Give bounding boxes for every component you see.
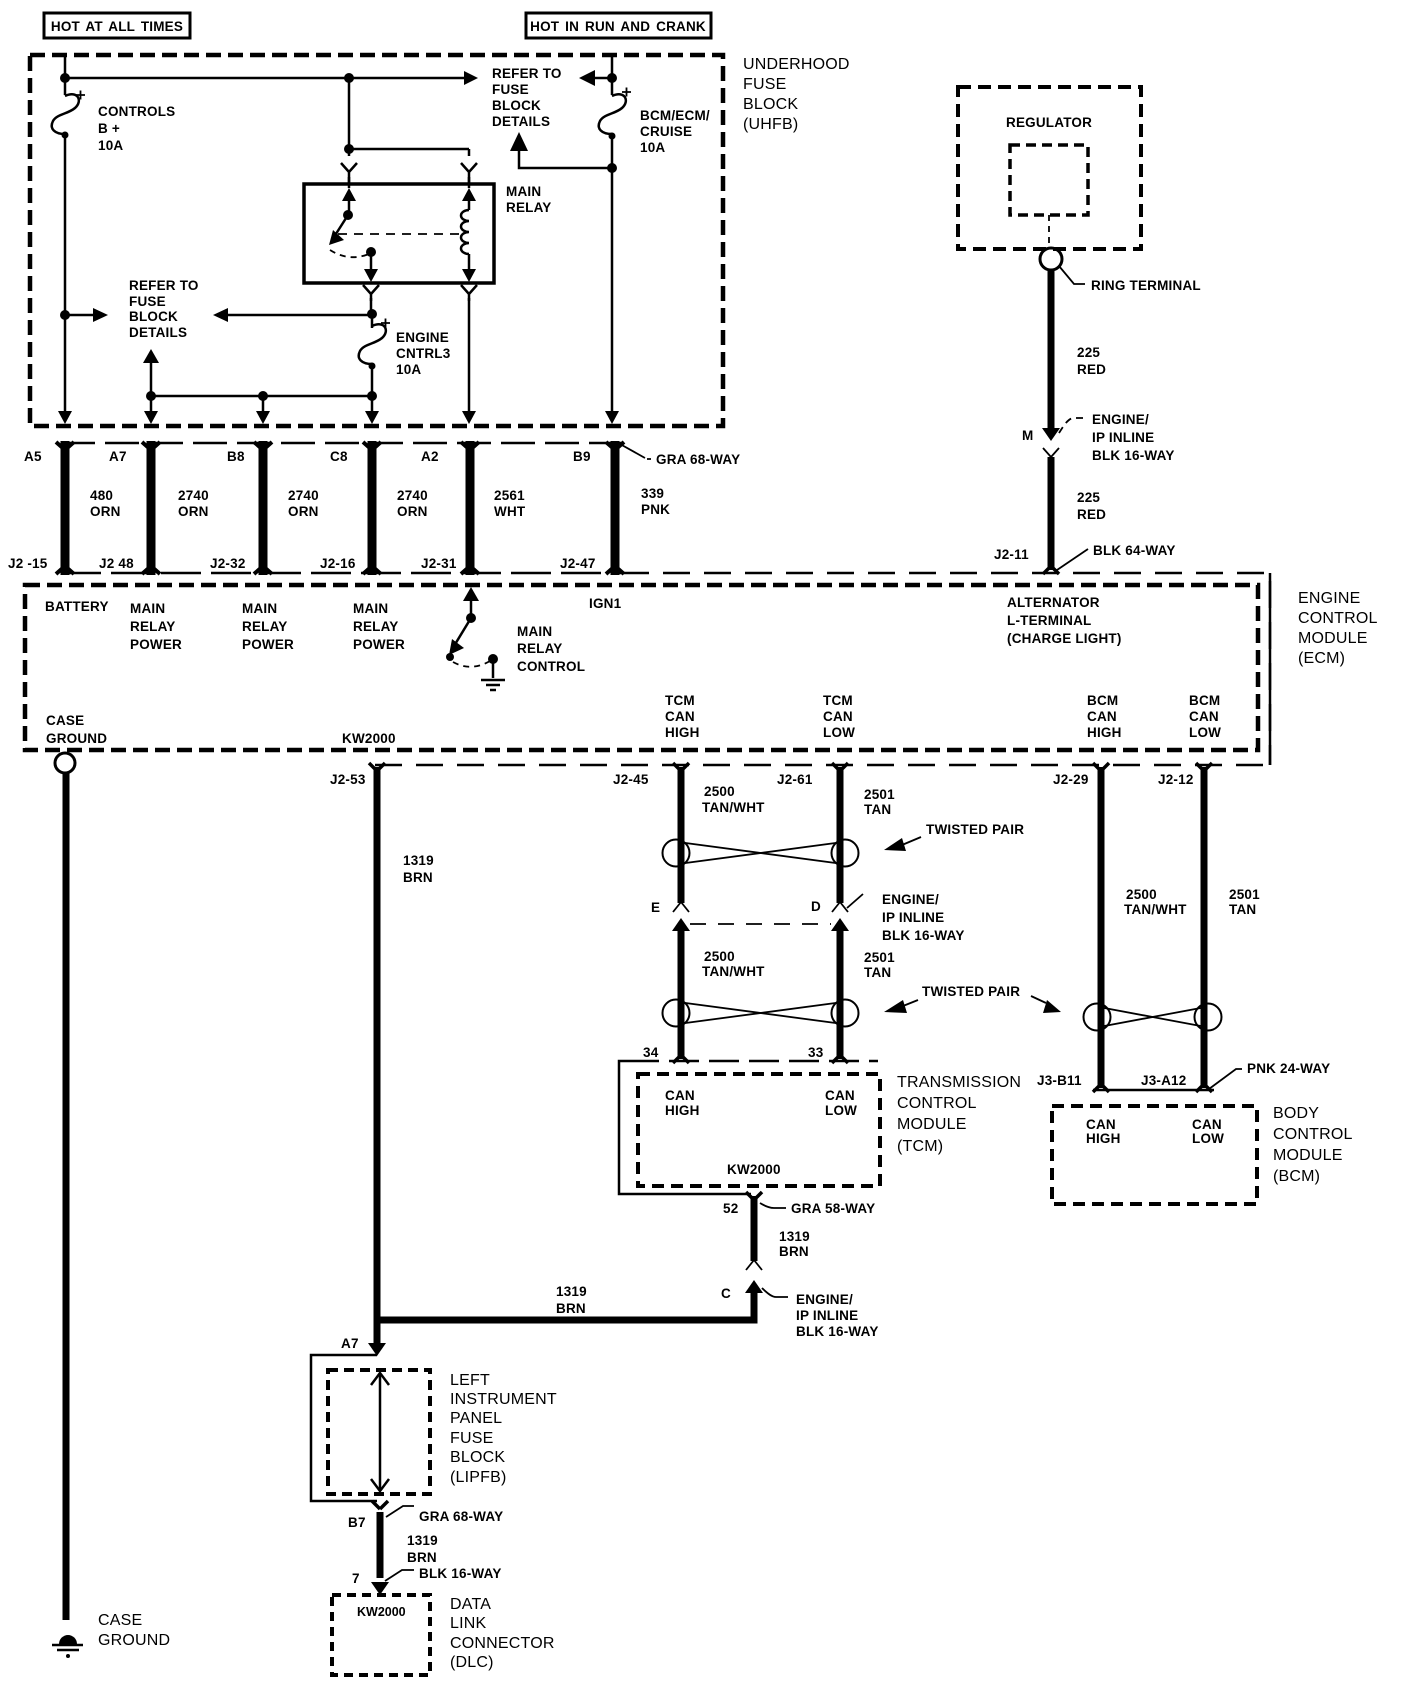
svg-text:2561: 2561 [494, 488, 525, 503]
node junction right top [607, 73, 617, 83]
svg-text:BCM: BCM [1189, 693, 1220, 708]
label GRA 68-WAY leader (B7) [386, 1506, 414, 1517]
node label CASE GROUND [46, 713, 107, 746]
svg-text:2500: 2500 [1126, 887, 1157, 902]
svg-text:BLOCK: BLOCK [492, 98, 541, 113]
svg-text:ENGINE/: ENGINE/ [882, 892, 939, 907]
pin B8 bar [254, 441, 272, 575]
svg-text:CONNECTOR: CONNECTOR [450, 1635, 555, 1652]
svg-text:1319: 1319 [556, 1284, 587, 1299]
svg-text:D: D [811, 899, 821, 914]
wire case ground vertical [63, 773, 70, 1620]
svg-text:C: C [721, 1286, 731, 1301]
BCM connector line [1093, 1089, 1214, 1092]
svg-text:ENGINE/: ENGINE/ [796, 1292, 853, 1307]
svg-text:PNK 24-WAY: PNK 24-WAY [1247, 1061, 1330, 1076]
svg-text:FUSE: FUSE [450, 1430, 493, 1447]
svg-text:1319: 1319 [403, 853, 434, 868]
svg-text:IP INLINE: IP INLINE [796, 1308, 858, 1323]
svg-text:REGULATOR: REGULATOR [1006, 115, 1092, 130]
svg-text:34: 34 [643, 1045, 659, 1060]
connector bracket right vertical [1269, 573, 1272, 765]
svg-text:GRA 58-WAY: GRA 58-WAY [791, 1201, 875, 1216]
svg-text:B7: B7 [348, 1515, 366, 1530]
wire dashed stub regulator to ring terminal [1048, 215, 1050, 247]
svg-text:REFER TO: REFER TO [129, 278, 199, 293]
svg-text:2501: 2501 [1229, 887, 1260, 902]
svg-text:10A: 10A [640, 140, 665, 155]
svg-text:RED: RED [1077, 362, 1106, 377]
label ENGINE/IP INLINE BLK 16-WAY leader [1059, 418, 1083, 433]
label BLK 64-WAY leader [1057, 549, 1088, 570]
svg-text:J2-11: J2-11 [994, 547, 1029, 562]
node junction left at refer arrow [60, 310, 70, 320]
label PNK 24-WAY leader [1209, 1069, 1242, 1089]
svg-text:L-TERMINAL: L-TERMINAL [1007, 613, 1091, 628]
svg-text:HIGH: HIGH [1086, 1131, 1121, 1146]
label RING TERMINAL leader [1059, 266, 1085, 284]
svg-text:IGN1: IGN1 [589, 596, 622, 611]
svg-text:52: 52 [723, 1201, 738, 1216]
svg-text:HOT AT ALL TIMES: HOT AT ALL TIMES [51, 19, 183, 34]
svg-text:J2 -15: J2 -15 [8, 556, 48, 571]
svg-text:(TCM): (TCM) [897, 1138, 943, 1155]
svg-text:E: E [651, 900, 660, 915]
node label BCM CAN LOW [1189, 693, 1221, 740]
pin B9 bar [606, 441, 624, 575]
wire label 2501 TAN lower [864, 950, 895, 980]
svg-text:BCM/ECM/: BCM/ECM/ [640, 108, 710, 123]
node label CAN HIGH (BCM) [1086, 1117, 1121, 1146]
ground symbol chassis (case ground) [52, 1635, 83, 1658]
wire label 1319 BRN (DLC) [407, 1533, 438, 1565]
wire label 2500 TAN/WHT lower [702, 949, 765, 979]
node junction at long left arrow [367, 309, 377, 319]
wire label 2561 WHT [494, 488, 526, 519]
svg-text:B9: B9 [573, 449, 591, 464]
node label CAN LOW (TCM) [825, 1088, 857, 1118]
node label MAIN RELAY POWER 2 [242, 601, 294, 652]
wire 1319 BRN main vertical from J2-53 [374, 767, 381, 1345]
label REFER TO FUSE BLOCK DETAILS (top) [492, 66, 562, 129]
svg-text:ORN: ORN [288, 504, 319, 519]
TCM transmission control module dashed box [638, 1074, 880, 1186]
wire corner to up arrow [519, 150, 612, 168]
svg-text:33: 33 [808, 1045, 824, 1060]
TCM connector bracket [629, 1060, 878, 1063]
wire label 2501 TAN [864, 787, 895, 817]
label ENGINE CONTROL MODULE (ECM) [1298, 590, 1378, 667]
wire label 1319 BRN [403, 853, 434, 885]
regulator REGULATOR dashed box [958, 87, 1141, 249]
pin A5 bar [56, 441, 74, 575]
svg-text:480: 480 [90, 488, 113, 503]
svg-text:BLK 64-WAY: BLK 64-WAY [1093, 543, 1176, 558]
svg-text:TAN/WHT: TAN/WHT [702, 964, 765, 979]
svg-text:IP INLINE: IP INLINE [1092, 430, 1154, 445]
pin J2-11 bar [1043, 566, 1059, 574]
regulator inner element dashed box [1010, 145, 1088, 215]
svg-text:DATA: DATA [450, 1596, 491, 1613]
svg-text:TAN: TAN [864, 965, 891, 980]
svg-text:J2-32: J2-32 [210, 556, 246, 571]
svg-text:POWER: POWER [242, 637, 294, 652]
arrow down left feed into connector A5 [58, 411, 72, 424]
inline connector M (engine/ip inline) [1042, 428, 1060, 457]
label DATA LINK CONNECTOR (DLC) [450, 1596, 555, 1671]
node junctions on y=396 [146, 391, 156, 401]
svg-text:CNTRL3: CNTRL3 [396, 346, 451, 361]
svg-text:HOT IN RUN AND CRANK: HOT IN RUN AND CRANK [530, 19, 706, 34]
label MAIN RELAY [506, 184, 552, 215]
wire TCM pin 52 down to C [751, 1196, 758, 1261]
svg-text:BLOCK: BLOCK [743, 96, 798, 113]
svg-text:DETAILS: DETAILS [492, 114, 550, 129]
svg-text:MODULE: MODULE [1298, 630, 1368, 647]
node label CAN HIGH (TCM) [665, 1088, 700, 1118]
svg-text:CONTROL: CONTROL [897, 1095, 977, 1112]
pin 33 bar [832, 1055, 848, 1063]
arrow into LIPFB A7 [368, 1343, 386, 1356]
node label CAN LOW (BCM) [1192, 1117, 1224, 1146]
fuse ENGINE CNTRL3 10A [359, 319, 390, 370]
svg-text:1319: 1319 [779, 1229, 810, 1244]
wire 2500 TAN/WHT lower [678, 929, 685, 1059]
ECM top pin line dashed continuation to right edge [622, 573, 1270, 765]
connector chevrons below relay [363, 285, 477, 301]
wire label 225 RED [1077, 490, 1106, 522]
value label ENGINE CNTRL3 10A [396, 330, 451, 377]
svg-text:PANEL: PANEL [450, 1410, 502, 1427]
inline connector D [831, 902, 849, 931]
node junction above relay [344, 144, 354, 154]
svg-text:KW2000: KW2000 [727, 1162, 781, 1177]
svg-text:RELAY: RELAY [353, 619, 399, 634]
svg-text:CAN: CAN [1086, 1117, 1116, 1132]
svg-text:RELAY: RELAY [242, 619, 288, 634]
svg-text:RING TERMINAL: RING TERMINAL [1091, 278, 1201, 293]
svg-text:BLK 16-WAY: BLK 16-WAY [1092, 448, 1175, 463]
node junction below right fuse [607, 163, 617, 173]
label HOT AT ALL TIMES box [44, 13, 190, 38]
arrow up toward DETAILS [150, 358, 153, 396]
node junction top-left [60, 73, 70, 83]
pin A2 bar [461, 441, 479, 575]
svg-text:MAIN: MAIN [517, 624, 552, 639]
svg-text:J2-53: J2-53 [330, 772, 366, 787]
LIPFB internal circuit double arrow [371, 1373, 389, 1491]
pin J3-A12 bar [1196, 1084, 1212, 1092]
svg-text:A2: A2 [421, 449, 439, 464]
main relay control switch inside ECM [446, 587, 498, 678]
svg-text:(UHFB): (UHFB) [743, 116, 798, 133]
svg-text:LOW: LOW [1189, 725, 1221, 740]
wire 1319 BRN horizontal branch to C [377, 1292, 754, 1320]
wire top horizontal bus [65, 77, 470, 80]
svg-text:FUSE: FUSE [492, 82, 529, 97]
inline connector E [672, 902, 690, 931]
label ENGINE/IP INLINE BLK 16-WAY leader (D) [847, 894, 863, 908]
fuse BCM/ECM/CRUISE 10A [599, 88, 631, 140]
wire label 2740 ORN [178, 488, 209, 519]
svg-text:225: 225 [1077, 490, 1100, 505]
svg-text:(CHARGE LIGHT): (CHARGE LIGHT) [1007, 631, 1122, 646]
twisted pair symbol 2 [663, 1000, 859, 1027]
label BLK 16-WAY leader (7) [385, 1570, 414, 1581]
svg-text:CAN: CAN [1189, 709, 1219, 724]
relay MAIN RELAY box [304, 184, 494, 283]
svg-text:CONTROLS: CONTROLS [98, 104, 175, 119]
svg-text:J2-47: J2-47 [560, 556, 596, 571]
node label ALTERNATOR L-TERMINAL (CHARGE LIGHT) [1007, 595, 1122, 646]
svg-text:MODULE: MODULE [897, 1116, 967, 1133]
svg-text:KW2000: KW2000 [342, 731, 396, 746]
svg-text:POWER: POWER [353, 637, 405, 652]
case ground ring terminal circle [55, 753, 75, 773]
arrow short right to refer-to [65, 314, 98, 317]
svg-text:TAN/WHT: TAN/WHT [702, 800, 765, 815]
pin J2-12 bar [1196, 763, 1212, 771]
label CASE GROUND (bottom) [98, 1612, 170, 1649]
wire label 1319 BRN (52) [779, 1229, 810, 1259]
svg-text:LINK: LINK [450, 1615, 486, 1632]
wire node to fuse [371, 314, 374, 328]
svg-text:CAN: CAN [1087, 709, 1117, 724]
fuse CONTROLS B+ 10A [52, 91, 85, 139]
svg-text:B +: B + [98, 121, 120, 136]
twisted pair symbol 1 [663, 840, 859, 867]
node label MAIN RELAY POWER 1 [130, 601, 182, 652]
wire label 2500 TAN/WHT [702, 784, 765, 815]
svg-text:TWISTED PAIR: TWISTED PAIR [922, 984, 1020, 999]
svg-text:2500: 2500 [704, 784, 735, 799]
svg-text:ALTERNATOR: ALTERNATOR [1007, 595, 1100, 610]
wires down from y=396 to connector row [151, 396, 263, 412]
svg-text:J2-16: J2-16 [320, 556, 356, 571]
svg-text:POWER: POWER [130, 637, 182, 652]
svg-text:RED: RED [1077, 507, 1106, 522]
wire horizontal distribution y=396 [151, 395, 372, 398]
svg-text:ENGINE/: ENGINE/ [1092, 412, 1149, 427]
label GRA 68-WAY connector leader [620, 444, 651, 459]
wire right feed BCM/ECM/CRUISE vertical [611, 55, 614, 412]
svg-text:GROUND: GROUND [46, 731, 107, 746]
svg-text:PNK: PNK [641, 502, 670, 517]
svg-text:MAIN: MAIN [506, 184, 541, 199]
connector interface dashed line E-D [690, 923, 831, 925]
connector strip UHFB-to-ECM top line [61, 442, 622, 445]
svg-text:ENGINE: ENGINE [1298, 590, 1361, 607]
svg-text:KW2000: KW2000 [357, 1605, 406, 1619]
svg-text:CRUISE: CRUISE [640, 124, 692, 139]
svg-text:HIGH: HIGH [1087, 725, 1122, 740]
svg-text:HIGH: HIGH [665, 725, 700, 740]
wire TCM CAN LOW 2501 TAN upper [837, 767, 844, 903]
svg-text:CAN: CAN [665, 1088, 695, 1103]
svg-text:CONTROL: CONTROL [1273, 1126, 1353, 1143]
arrow left to refer-to text [589, 77, 612, 80]
svg-text:TRANSMISSION: TRANSMISSION [897, 1074, 1021, 1091]
relay mechanical link dashed [338, 233, 460, 235]
svg-text:J2-31: J2-31 [421, 556, 457, 571]
svg-text:TAN/WHT: TAN/WHT [1124, 902, 1187, 917]
label GRA 58-WAY leader [760, 1203, 786, 1208]
svg-text:FUSE: FUSE [743, 76, 786, 93]
svg-text:(DLC): (DLC) [450, 1654, 494, 1671]
svg-text:M: M [1022, 428, 1033, 443]
svg-text:BRN: BRN [403, 870, 433, 885]
relay coil (right) [461, 177, 476, 282]
node label TCM CAN HIGH [665, 693, 700, 740]
svg-text:RELAY: RELAY [517, 641, 563, 656]
svg-text:BLOCK: BLOCK [129, 309, 178, 324]
DLC data link connector dashed box [332, 1595, 430, 1675]
svg-text:CONTROL: CONTROL [1298, 610, 1378, 627]
label UNDERHOOD FUSE BLOCK (UHFB) [743, 56, 850, 133]
label TRANSMISSION CONTROL MODULE (TCM) [897, 1074, 1021, 1155]
svg-text:J2-45: J2-45 [613, 772, 649, 787]
label ENGINE/IP INLINE BLK 16-WAY leader (C) [762, 1288, 788, 1297]
svg-text:LOW: LOW [1192, 1131, 1224, 1146]
svg-text:(LIPFB): (LIPFB) [450, 1469, 507, 1486]
svg-text:10A: 10A [98, 138, 123, 153]
svg-text:ENGINE: ENGINE [396, 330, 449, 345]
wire 225 RED lower [1048, 457, 1055, 570]
wire center vertical from top bus [348, 78, 351, 149]
svg-text:FUSE: FUSE [129, 294, 166, 309]
svg-text:CAN: CAN [823, 709, 853, 724]
ECM bottom pin line dashed [375, 764, 1270, 767]
svg-text:CAN: CAN [825, 1088, 855, 1103]
wire relay output right (coil return) down [468, 298, 471, 412]
svg-text:1319: 1319 [407, 1533, 438, 1548]
pin J2-61 bar [832, 763, 848, 771]
pin A7 bar [142, 441, 160, 575]
svg-text:RELAY: RELAY [506, 200, 552, 215]
ring terminal circle [1040, 248, 1062, 270]
svg-text:RELAY: RELAY [130, 619, 176, 634]
wire long arrow left from engine-cntrl3 node [222, 314, 372, 317]
wire label 1319 BRN (horizontal) [556, 1284, 587, 1316]
wire fuse to distribution node [371, 366, 374, 412]
svg-text:IP INLINE: IP INLINE [882, 910, 944, 925]
wire TCM CAN HIGH 2500 TAN/WHT upper [678, 767, 685, 903]
svg-text:2740: 2740 [397, 488, 428, 503]
svg-text:BRN: BRN [556, 1301, 586, 1316]
label TWISTED PAIR with arrow [884, 822, 1024, 851]
svg-text:BCM: BCM [1087, 693, 1118, 708]
label TWISTED PAIR with two arrows [884, 984, 1061, 1013]
svg-text:BLK 16-WAY: BLK 16-WAY [882, 928, 965, 943]
node label MAIN RELAY POWER 3 [353, 601, 405, 652]
svg-text:CASE: CASE [46, 713, 84, 728]
svg-text:TCM: TCM [823, 693, 853, 708]
svg-text:BODY: BODY [1273, 1105, 1319, 1122]
svg-text:TCM: TCM [665, 693, 695, 708]
svg-text:LEFT: LEFT [450, 1372, 490, 1389]
arrow to refer-to-fuse-block (right) [464, 71, 478, 85]
svg-text:GRA 68-WAY: GRA 68-WAY [419, 1509, 503, 1524]
label LEFT INSTRUMENT PANEL FUSE BLOCK (LIPFB) [450, 1372, 557, 1486]
svg-text:A7: A7 [109, 449, 127, 464]
svg-text:ORN: ORN [178, 504, 209, 519]
node label TCM CAN LOW [823, 693, 855, 740]
wire 225 RED upper [1048, 270, 1055, 428]
svg-text:CONTROL: CONTROL [517, 659, 585, 674]
svg-text:ORN: ORN [397, 504, 428, 519]
svg-text:J2-61: J2-61 [777, 772, 813, 787]
svg-text:TAN: TAN [864, 802, 891, 817]
svg-text:WHT: WHT [494, 504, 526, 519]
svg-text:J2 48: J2 48 [99, 556, 134, 571]
LIPFB left instrument panel fuse block dashed box [328, 1370, 430, 1494]
svg-text:(BCM): (BCM) [1273, 1168, 1320, 1185]
svg-text:INSTRUMENT: INSTRUMENT [450, 1391, 557, 1408]
wire label 2740 ORN [397, 488, 428, 519]
svg-text:2501: 2501 [864, 950, 895, 965]
wire horizontal above relay [349, 148, 469, 151]
svg-text:TWISTED PAIR: TWISTED PAIR [926, 822, 1024, 837]
twisted pair symbol 3 [1084, 1004, 1222, 1031]
svg-text:339: 339 [641, 486, 664, 501]
svg-text:BRN: BRN [779, 1244, 809, 1259]
relay switch contact (left) [329, 177, 378, 282]
svg-text:C8: C8 [330, 449, 348, 464]
svg-text:A7: A7 [341, 1336, 359, 1351]
svg-text:ORN: ORN [90, 504, 121, 519]
svg-text:BLK 16-WAY: BLK 16-WAY [796, 1324, 879, 1339]
label BODY CONTROL MODULE (BCM) [1273, 1105, 1353, 1185]
svg-text:BLOCK: BLOCK [450, 1449, 505, 1466]
svg-text:HIGH: HIGH [665, 1103, 700, 1118]
svg-text:225: 225 [1077, 345, 1100, 360]
svg-text:GROUND: GROUND [98, 1632, 170, 1649]
node label BCM CAN HIGH [1087, 693, 1122, 740]
node junction center top [344, 73, 354, 83]
svg-text:10A: 10A [396, 362, 421, 377]
svg-text:LOW: LOW [823, 725, 855, 740]
ground symbol (main relay control) [481, 680, 505, 690]
svg-text:UNDERHOOD: UNDERHOOD [743, 56, 850, 73]
connector strip bottom line / ECM top pin line [61, 572, 622, 575]
svg-text:DETAILS: DETAILS [129, 325, 187, 340]
svg-text:BLK 16-WAY: BLK 16-WAY [419, 1566, 502, 1581]
svg-text:CAN: CAN [665, 709, 695, 724]
wire 1319 BRN to DLC [377, 1512, 384, 1578]
svg-text:LOW: LOW [825, 1103, 857, 1118]
svg-text:MAIN: MAIN [242, 601, 277, 616]
ECM engine control module dashed box [25, 585, 1258, 750]
svg-text:7: 7 [352, 1571, 360, 1586]
svg-text:A5: A5 [24, 449, 42, 464]
wire label 2740 ORN [288, 488, 319, 519]
svg-text:B8: B8 [227, 449, 245, 464]
svg-text:MAIN: MAIN [130, 601, 165, 616]
svg-text:2740: 2740 [288, 488, 319, 503]
LIPFB connector bracket [311, 1355, 377, 1501]
arrow into DLC [371, 1582, 389, 1595]
inline connector B7 chevron [372, 1501, 388, 1509]
svg-text:J3-A12: J3-A12 [1141, 1073, 1186, 1088]
svg-text:2500: 2500 [704, 949, 735, 964]
BCM body control module dashed box [1052, 1106, 1257, 1204]
wire BCM CAN LOW 2501 TAN [1201, 767, 1208, 1088]
svg-text:2501: 2501 [864, 787, 895, 802]
svg-text:2740: 2740 [178, 488, 209, 503]
pin 34 bar [673, 1055, 689, 1063]
wire 2501 TAN lower [837, 929, 844, 1059]
svg-text:MODULE: MODULE [1273, 1147, 1343, 1164]
